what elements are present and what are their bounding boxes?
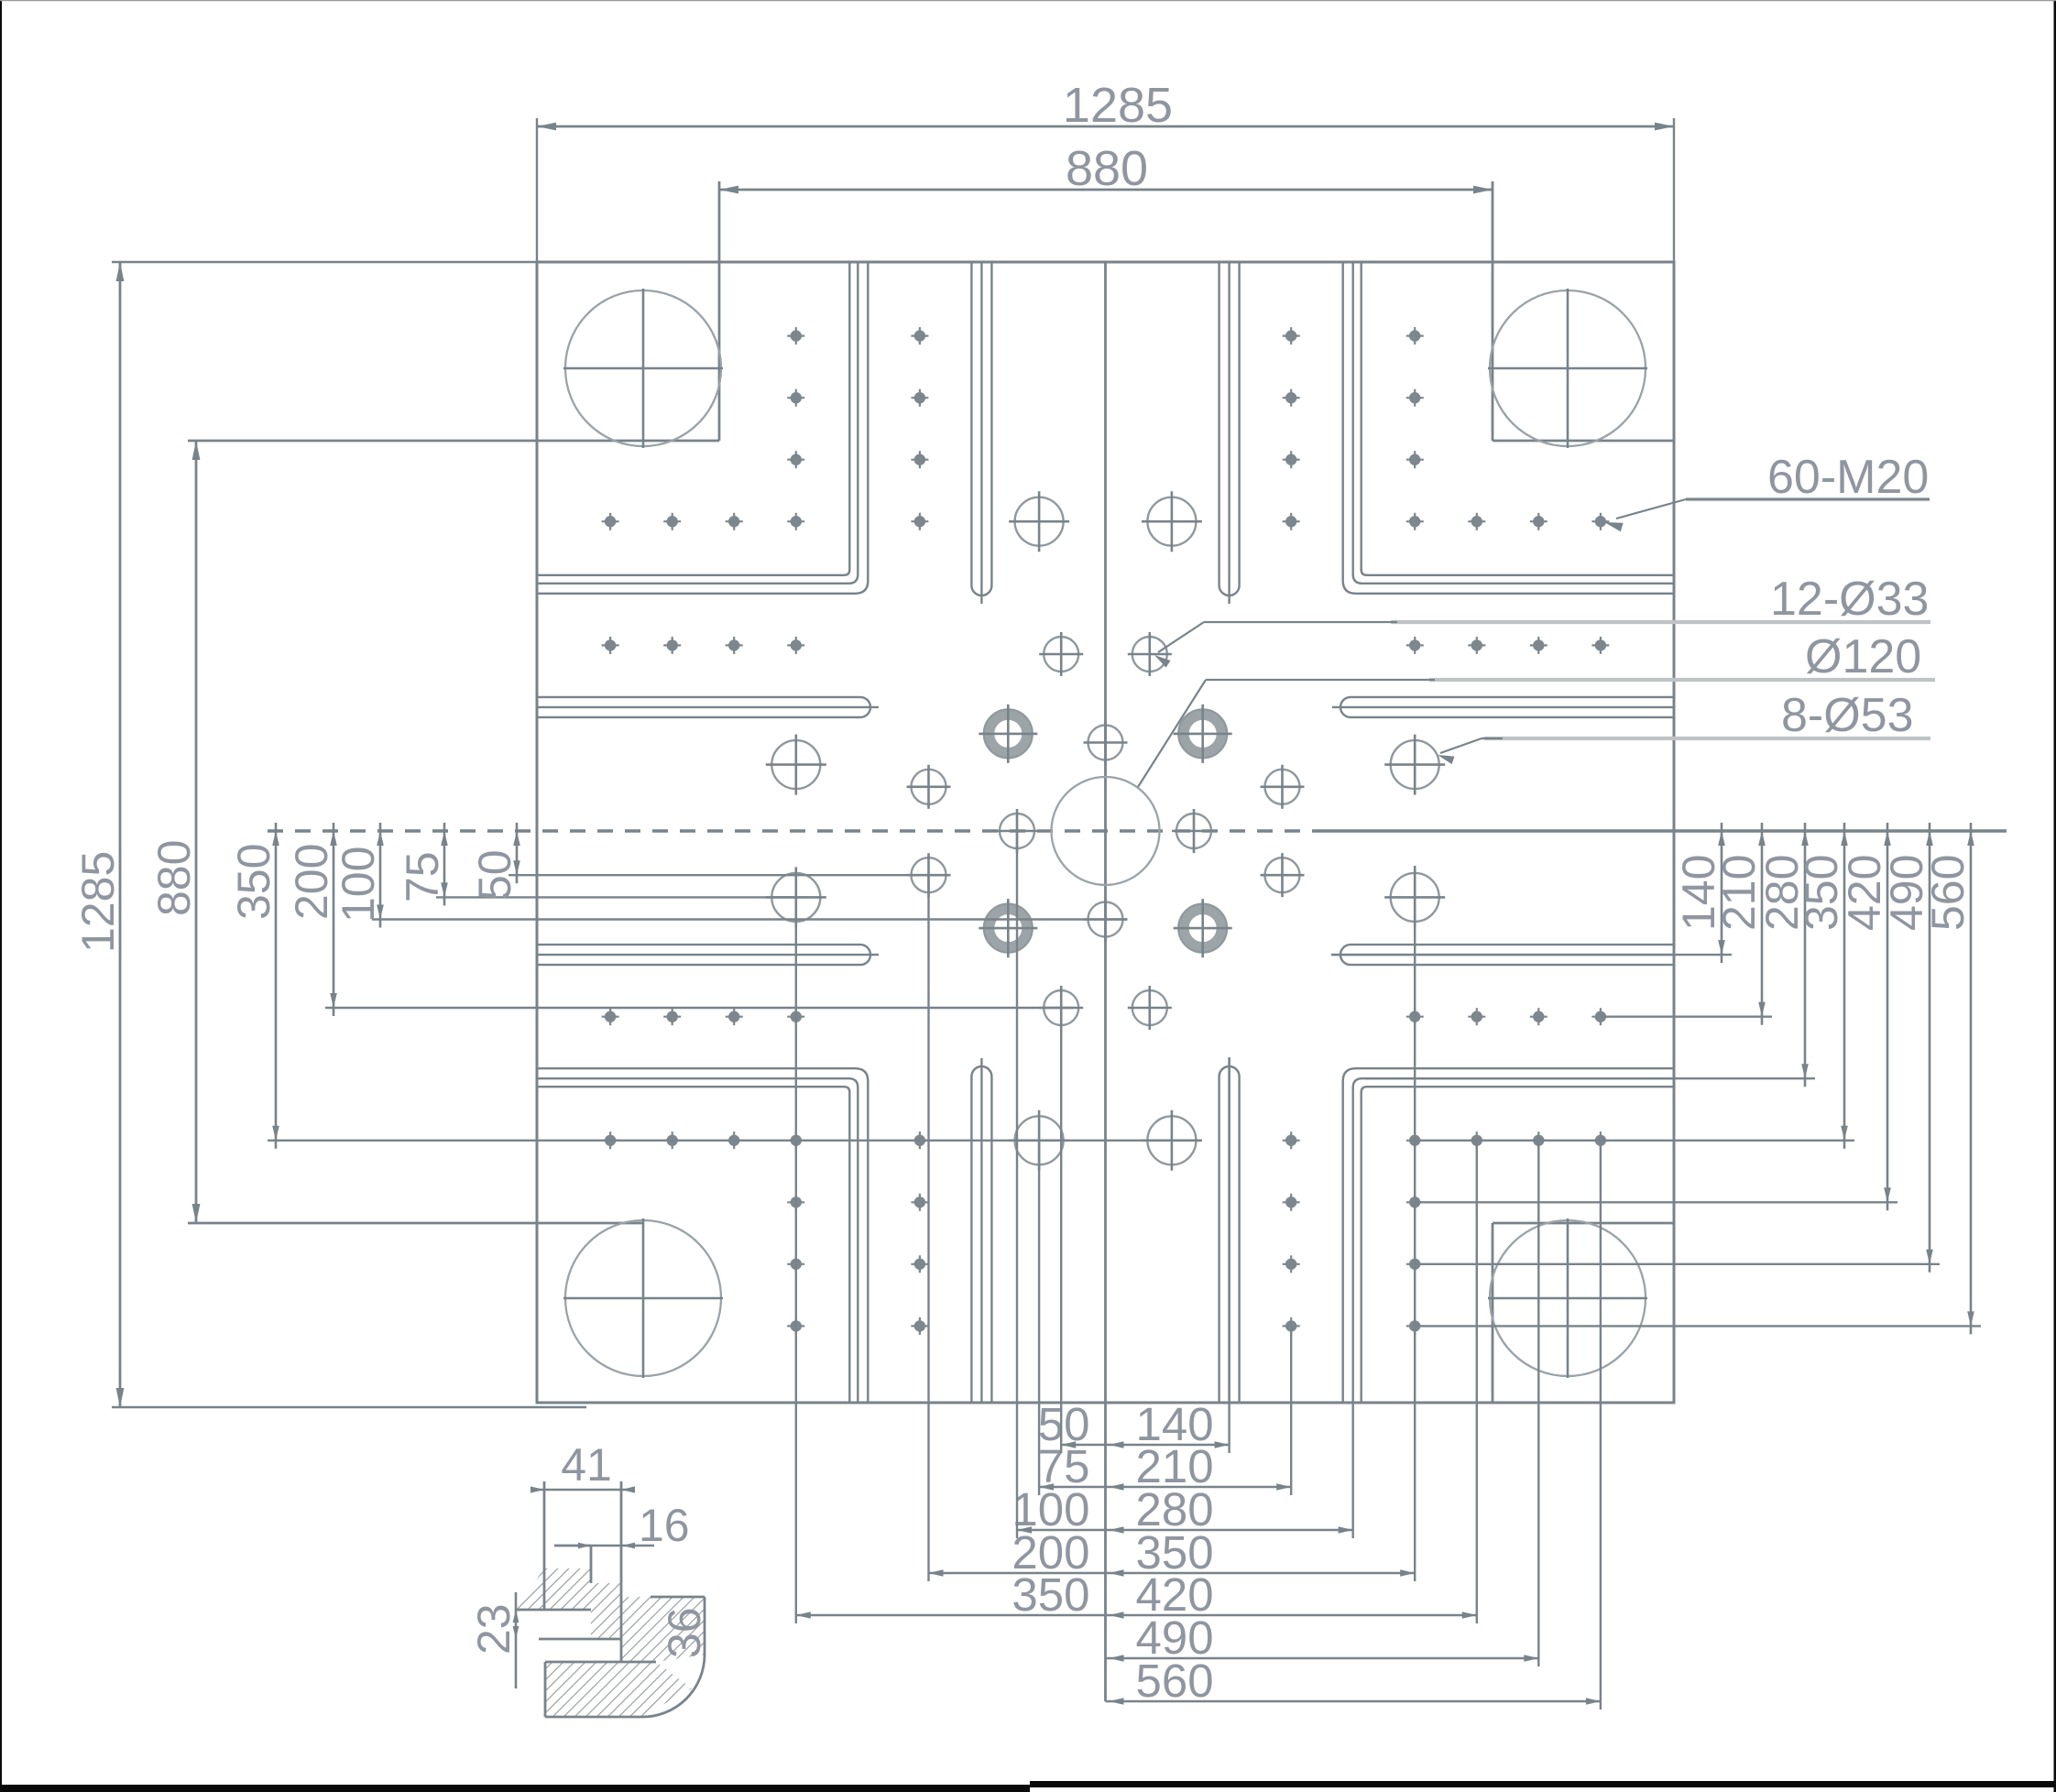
M20 tapped holes (60x) xyxy=(602,327,1610,1335)
dim text 560 right xyxy=(1922,855,1974,931)
dim text 200 left xyxy=(286,844,337,920)
bottom dim text 420 xyxy=(1136,1568,1214,1621)
hole D33 #7 at (-200,50) xyxy=(907,853,951,897)
hole D33 #11 at (-50,200) xyxy=(1039,986,1083,1030)
center vertical extension line xyxy=(1104,262,1107,1701)
svg-text:880: 880 xyxy=(1066,141,1148,196)
guide bush hole #3 at (-110,110) xyxy=(979,899,1037,957)
bottom dim line 350|420 xyxy=(796,1612,1477,1619)
bottom dim line |560 xyxy=(1106,1698,1601,1705)
hole D33 #6 at (200,-50) xyxy=(1261,765,1305,809)
bottom dim text 50 xyxy=(1038,1398,1090,1450)
bottom dim text 100 xyxy=(1012,1483,1089,1535)
bottom extension line 140R xyxy=(1228,1057,1230,1453)
bottom extension line 560R xyxy=(1600,1141,1602,1710)
svg-text:350: 350 xyxy=(1012,1568,1089,1621)
svg-text:200: 200 xyxy=(286,844,337,920)
leader D120 xyxy=(1138,680,1435,787)
label text 8-D53 xyxy=(1781,689,1914,742)
dim text 100 left xyxy=(333,847,384,923)
bottom extension line 280R xyxy=(1351,1403,1353,1538)
dim 420 right line+connector xyxy=(1415,823,1897,1210)
L-slot top-left xyxy=(537,262,868,594)
dim 880 left line xyxy=(192,441,201,1223)
image border bottom right part xyxy=(1030,1781,2056,1787)
dim text 140 right xyxy=(1673,855,1724,931)
T-slot vertical bottom-left xyxy=(971,1058,991,1403)
dim 350 left line+connector xyxy=(268,823,1184,1149)
hole D33 #1 at (0,-100) xyxy=(1084,721,1128,765)
L-slot top-right xyxy=(1343,262,1674,594)
guide bush hole #1 at (-110,-110) xyxy=(979,705,1037,763)
dim 140 right line+connector xyxy=(1331,823,1732,963)
bottom extension line 75L xyxy=(1038,1141,1040,1495)
bottom dim line |490 xyxy=(1106,1655,1539,1662)
bottom dim text 350 xyxy=(1012,1568,1089,1621)
svg-text:100: 100 xyxy=(333,847,384,923)
bottom extension line 490R xyxy=(1537,1141,1539,1666)
dim 1285 left extension bottom xyxy=(112,1406,586,1408)
bottom extension line 50L xyxy=(1060,1008,1062,1453)
bottom dim line 50|140 xyxy=(1061,1441,1229,1448)
T-slot horizontal right-upper xyxy=(1332,697,1674,717)
detail dim text 41 xyxy=(561,1439,612,1491)
image border top xyxy=(0,0,2056,1)
L-slot bottom-right xyxy=(1343,1068,1674,1403)
hole D53 #1 at (-75,-350) xyxy=(1009,491,1069,552)
svg-text:1285: 1285 xyxy=(1063,78,1173,133)
corner box line horizontal bottom-left xyxy=(188,1222,643,1225)
bottom dim text 490 xyxy=(1136,1612,1214,1664)
dim text 350 right xyxy=(1796,855,1847,931)
hole D33 #4 at (100,0) xyxy=(1172,809,1216,853)
central hole D120 xyxy=(1052,777,1160,885)
hole D53 #2 at (75,-350) xyxy=(1142,491,1202,552)
corner box line vertical top-right xyxy=(1492,181,1494,441)
label underline D120 xyxy=(1429,678,1935,682)
L-slot bottom-left xyxy=(537,1068,868,1403)
dim 200 left line+connector xyxy=(325,823,1073,1016)
T-slot horizontal left-lower xyxy=(537,945,879,965)
detail dim text 16 xyxy=(639,1500,690,1551)
dim 1285 left line xyxy=(116,262,125,1407)
bottom dim text 75 xyxy=(1038,1440,1090,1492)
leader 8-D53 xyxy=(1438,738,1503,764)
hole D33 #10 at (50,-200) xyxy=(1128,632,1172,676)
bottom dim text 560 xyxy=(1136,1655,1214,1707)
dim 880 top line xyxy=(719,186,1493,194)
dim 350 right line+connector xyxy=(1415,823,1854,1149)
dim text 1285 left xyxy=(72,851,124,953)
dim text 420 right xyxy=(1839,855,1890,931)
hole D33 #3 at (-100,0) xyxy=(995,809,1039,853)
hole D53 #5 at (-350,-75) xyxy=(766,735,826,795)
dim 1285 top line xyxy=(537,123,1674,131)
bottom dim line 75|210 xyxy=(1039,1483,1291,1491)
bottom dim text 280 xyxy=(1136,1483,1214,1535)
bottom extension line 210R xyxy=(1290,1326,1292,1495)
dim text 880 left xyxy=(148,840,200,916)
dim 1285 top extension right xyxy=(1673,118,1675,262)
tie bar hole top-left xyxy=(563,289,723,448)
dim text 50 left xyxy=(469,849,520,901)
label underline 12-D33 xyxy=(1391,620,1930,624)
label underline 8-D53 xyxy=(1484,737,1930,740)
T-slot horizontal right-lower xyxy=(1332,945,1674,965)
image border bottom left part xyxy=(0,1785,1030,1792)
svg-text:880: 880 xyxy=(148,840,200,916)
detail dim text 23 xyxy=(468,1603,519,1655)
hole D33 #12 at (50,200) xyxy=(1128,986,1172,1030)
dim text 210 right xyxy=(1713,855,1765,931)
dim 560 right line+connector xyxy=(1415,823,1981,1334)
detail dim 41 line xyxy=(530,1486,635,1492)
bottom extension line 100L xyxy=(1016,831,1018,1538)
dim 50 left line+connector xyxy=(509,823,944,883)
dim text 75 left xyxy=(397,851,448,902)
svg-text:12-Ø33: 12-Ø33 xyxy=(1770,573,1929,626)
guide bush hole #2 at (110,-110) xyxy=(1174,705,1232,763)
dim 490 right line+connector xyxy=(1415,823,1940,1273)
label underline 60-M20 xyxy=(1686,497,1930,501)
svg-text:36: 36 xyxy=(659,1607,710,1658)
dim 210 right line+connector xyxy=(1601,823,1772,1025)
bottom extension line 200L xyxy=(927,875,929,1581)
svg-text:1285: 1285 xyxy=(72,851,124,953)
tie bar hole top-right xyxy=(1488,289,1647,448)
hole D33 #2 at (0,100) xyxy=(1084,898,1128,942)
dim 100 left line+connector xyxy=(372,823,1127,928)
bottom extension line 350R xyxy=(1414,866,1416,1581)
T-slot vertical bottom-right xyxy=(1219,1058,1240,1403)
svg-text:560: 560 xyxy=(1922,855,1974,931)
svg-text:60-M20: 60-M20 xyxy=(1767,451,1929,504)
bottom extension line 350L xyxy=(795,898,797,1623)
bottom dim text 210 xyxy=(1136,1440,1214,1492)
svg-text:75: 75 xyxy=(397,851,448,902)
hole D33 #5 at (-200,-50) xyxy=(907,765,951,809)
dim text 880 top xyxy=(1066,141,1148,196)
dim 1285 top extension left xyxy=(536,118,538,262)
hole D53 #7 at (-350,75) xyxy=(766,867,826,927)
bottom dim text 140 xyxy=(1136,1398,1214,1450)
dim text 280 right xyxy=(1756,855,1808,931)
dim 280 right line+connector xyxy=(1365,823,1815,1087)
bottom extension line 420R xyxy=(1476,1141,1478,1623)
svg-text:350: 350 xyxy=(228,844,279,920)
leader 60-M20 xyxy=(1604,499,1930,531)
bottom dim text 200 xyxy=(1012,1526,1089,1579)
corner box line horizontal top-right xyxy=(1493,440,1674,443)
hole D53 #3 at (-75,350) xyxy=(1009,1110,1069,1171)
dim text 350 left xyxy=(228,844,279,920)
hole D53 #8 at (350,75) xyxy=(1384,867,1445,927)
centerline horizontal solid extension xyxy=(1319,829,2007,832)
svg-text:16: 16 xyxy=(639,1500,690,1551)
image border left xyxy=(0,0,2,1792)
bottom dim line 100|280 xyxy=(1017,1526,1353,1534)
corner box line vertical top-left xyxy=(718,181,721,441)
corner box line vertical bottom-right xyxy=(1492,1223,1494,1403)
corner box line horizontal bottom-right xyxy=(1493,1222,1674,1225)
centerline horizontal dashed xyxy=(268,829,1319,832)
T-slot vertical top-right xyxy=(1219,262,1240,604)
svg-text:23: 23 xyxy=(468,1603,519,1655)
svg-text:50: 50 xyxy=(469,849,520,901)
hole D33 #9 at (-50,-200) xyxy=(1039,632,1083,676)
tie bar hole bottom-left xyxy=(563,1218,723,1378)
T-slot vertical top-left xyxy=(971,262,991,604)
leader 12-D33 xyxy=(1154,622,1397,668)
corner box line horizontal top-left xyxy=(188,440,719,443)
plate outline xyxy=(537,262,1674,1403)
hole D33 #8 at (200,50) xyxy=(1261,853,1305,897)
detail dim 23 line xyxy=(513,1592,519,1688)
label text 12-D33 xyxy=(1770,573,1929,626)
dim 1285 left extension top xyxy=(112,261,537,263)
image border right xyxy=(2054,0,2056,1792)
dim 75 left line+connector xyxy=(436,823,808,905)
svg-text:8-Ø53: 8-Ø53 xyxy=(1781,689,1914,742)
detail dim text 36 xyxy=(659,1607,710,1658)
tie bar hole bottom-right xyxy=(1488,1218,1647,1378)
hole D53 #6 at (350,-75) xyxy=(1384,735,1445,795)
svg-text:41: 41 xyxy=(561,1439,612,1491)
detail dim 16 line xyxy=(578,1543,654,1549)
svg-text:560: 560 xyxy=(1136,1655,1214,1707)
dim text 1285 top xyxy=(1063,78,1173,133)
bottom dim text 350 xyxy=(1136,1526,1214,1579)
guide bush hole #4 at (110,110) xyxy=(1174,899,1232,957)
hole D53 #4 at (75,350) xyxy=(1142,1110,1202,1171)
dim text 490 right xyxy=(1881,855,1932,931)
bottom dim line 200|350 xyxy=(929,1569,1416,1577)
label text 60-M20 xyxy=(1767,451,1929,504)
T-slot horizontal left-upper xyxy=(537,697,879,717)
label text D120 xyxy=(1805,630,1921,683)
svg-text:Ø120: Ø120 xyxy=(1805,630,1921,683)
detail section outline+hatch xyxy=(515,1481,705,1717)
